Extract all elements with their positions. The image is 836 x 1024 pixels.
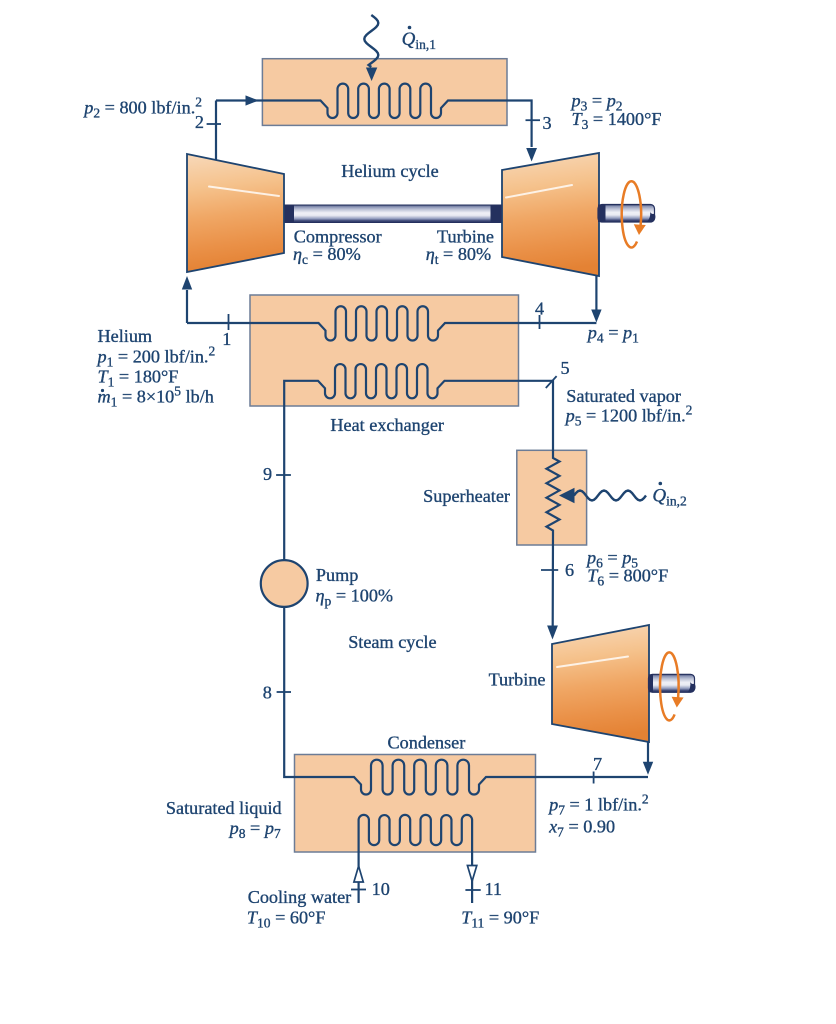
svg-text:Steam cycle: Steam cycle xyxy=(348,632,436,652)
tick state 6 xyxy=(541,569,558,571)
svg-text:5: 5 xyxy=(560,358,569,378)
condenser cooling-water coil and pipes (10 to 11) xyxy=(359,815,473,903)
svg-text:p2 = 800 lbf/in.2: p2 = 800 lbf/in.2 xyxy=(82,95,202,121)
svg-text:2: 2 xyxy=(195,112,204,132)
shaft flange right xyxy=(491,205,502,224)
arrow into heater (state 2) xyxy=(246,95,259,105)
tick state 2 xyxy=(207,123,221,125)
svg-text:p8 = p7: p8 = p7 xyxy=(228,818,281,841)
svg-text:Condenser: Condenser xyxy=(388,732,466,752)
svg-text:Pump: Pump xyxy=(316,565,358,585)
helium turbine outlet drop (state 4) xyxy=(595,276,597,310)
condenser steam coil wire (7 to 8) and riser to pump xyxy=(284,608,648,795)
svg-text:ηt = 80%: ηt = 80% xyxy=(426,244,492,267)
steam turbine trapezoid xyxy=(552,625,649,742)
svg-text:x7 = 0.90: x7 = 0.90 xyxy=(548,817,615,840)
main shaft between compressor and turbine xyxy=(285,205,501,223)
svg-text:T10 = 60°F: T10 = 60°F xyxy=(247,908,326,931)
svg-text:10: 10 xyxy=(372,879,390,899)
superheater box xyxy=(517,450,587,545)
HX steam coil wire (states 9 to 5) xyxy=(284,364,553,560)
heater box (Q_in,1) xyxy=(262,59,507,126)
tick state 4 xyxy=(539,315,541,329)
steam turbine outlet (state 7) xyxy=(647,742,649,762)
pump circle xyxy=(261,560,308,607)
tick state 10 xyxy=(351,889,366,891)
wire state2 vertical into compressor xyxy=(215,101,217,161)
tick state 1 xyxy=(228,314,230,330)
svg-text:1: 1 xyxy=(222,329,231,349)
shaft flange left xyxy=(285,205,295,224)
tick state 3 xyxy=(526,119,541,121)
Q_in,1 squiggle arrow xyxy=(364,15,378,67)
svg-text:m1 = 8×105 lb/h: m1 = 8×105 lb/h xyxy=(98,384,214,410)
tick state 5 diagonal xyxy=(546,376,557,388)
heat exchanger box xyxy=(250,295,519,406)
wire heater loop states 2-3 with coil xyxy=(216,84,532,147)
svg-text:7: 7 xyxy=(593,754,602,774)
steam turbine inlet arrow xyxy=(547,626,558,640)
helium turbine gloss xyxy=(506,185,572,198)
tick state 7 xyxy=(593,772,595,784)
svg-text:Qin,2: Qin,2 xyxy=(652,486,686,509)
helium shaft flange xyxy=(598,205,606,223)
helium shaft end cap xyxy=(646,212,655,223)
tick state 11 xyxy=(465,889,480,891)
steam turbine gloss xyxy=(557,657,628,668)
helium turbine free shaft xyxy=(598,205,655,223)
svg-text:Saturated vapor: Saturated vapor xyxy=(566,386,681,406)
svg-text:p4 = p1: p4 = p1 xyxy=(586,323,639,346)
svg-text:Heat exchanger: Heat exchanger xyxy=(330,415,444,435)
svg-text:ηc = 80%: ηc = 80% xyxy=(293,244,361,267)
svg-text:8: 8 xyxy=(263,683,272,703)
svg-text:p5 = 1200 lbf/in.2: p5 = 1200 lbf/in.2 xyxy=(564,402,693,428)
svg-text:Qin,1: Qin,1 xyxy=(402,29,436,52)
svg-text:T11 = 90°F: T11 = 90°F xyxy=(461,908,539,931)
helium turbine trapezoid xyxy=(502,153,599,276)
svg-text:4: 4 xyxy=(535,299,544,319)
tick state 9 xyxy=(276,474,291,476)
svg-text:Helium cycle: Helium cycle xyxy=(341,161,438,181)
svg-text:11: 11 xyxy=(485,879,503,899)
cooling water inlet open arrow (state 10) xyxy=(354,866,363,882)
tick state 8 xyxy=(277,691,291,693)
svg-text:9: 9 xyxy=(263,464,272,484)
steam shaft end cap xyxy=(687,682,696,693)
helium rotation arrow xyxy=(622,181,641,247)
compressor trapezoid xyxy=(187,154,284,272)
svg-text:p7 = 1 lbf/in.2: p7 = 1 lbf/in.2 xyxy=(547,792,649,818)
Q_in,2 squiggle arrow xyxy=(574,491,646,501)
steam turbine free shaft xyxy=(649,674,695,692)
superheater zigzag and drop to steam turbine (state 6) xyxy=(547,451,560,627)
svg-text:Turbine: Turbine xyxy=(489,670,546,690)
condenser box xyxy=(295,755,536,853)
svg-text:3: 3 xyxy=(542,113,551,133)
HX helium coil wire (states 4 to 1) xyxy=(187,306,596,340)
svg-text:Saturated liquid: Saturated liquid xyxy=(166,798,282,818)
svg-text:Superheater: Superheater xyxy=(423,486,510,506)
svg-text:Cooling water: Cooling water xyxy=(248,887,352,907)
svg-text:Helium: Helium xyxy=(98,326,153,346)
svg-text:p1 = 200 lbf/in.2: p1 = 200 lbf/in.2 xyxy=(96,343,216,369)
cooling water outlet open arrow (state 11) xyxy=(467,866,476,882)
compressor inlet riser (state 1) xyxy=(186,290,188,323)
steam rotation arrow xyxy=(660,652,679,720)
svg-text:6: 6 xyxy=(565,560,574,580)
compressor gloss xyxy=(209,187,279,197)
steam shaft flange xyxy=(649,674,654,692)
svg-text:ηp = 100%: ηp = 100% xyxy=(316,586,394,609)
arrow state 3 into helium turbine xyxy=(526,148,537,162)
